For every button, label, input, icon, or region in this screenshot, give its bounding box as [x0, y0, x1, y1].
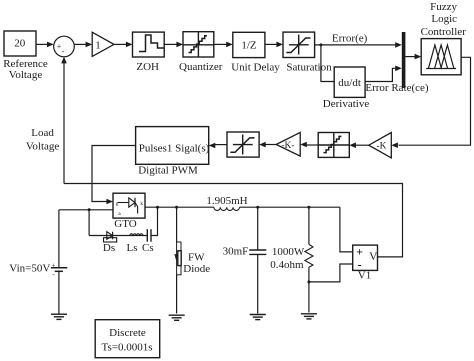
svg-text:0.4ohm: 0.4ohm [270, 259, 304, 271]
svg-text:Voltage: Voltage [9, 69, 43, 81]
svg-text:-: - [62, 47, 65, 56]
svg-text:Vin=50V: Vin=50V [9, 263, 50, 275]
svg-text:Quantizer: Quantizer [179, 61, 223, 73]
svg-text:+: + [356, 245, 363, 259]
svg-text:FW: FW [188, 252, 205, 264]
svg-text:Cs: Cs [142, 242, 154, 254]
svg-text:+: + [51, 262, 55, 270]
svg-text:1/Z: 1/Z [241, 40, 257, 52]
svg-text:Controller: Controller [421, 26, 467, 38]
svg-text:g: g [116, 201, 119, 207]
svg-text:Load: Load [31, 127, 54, 139]
svg-text:Saturation: Saturation [286, 62, 332, 74]
svg-text:k: k [140, 201, 143, 207]
svg-text:Unit Delay: Unit Delay [231, 62, 280, 74]
svg-text:Fuzzy: Fuzzy [430, 1, 457, 13]
svg-text:-: - [358, 258, 362, 272]
svg-text:30mF: 30mF [223, 246, 249, 258]
svg-text:Derivative: Derivative [323, 98, 370, 110]
svg-text:Pulses1 Sigal(s): Pulses1 Sigal(s) [139, 143, 210, 155]
svg-text:GTO: GTO [114, 218, 136, 230]
svg-text:Ds: Ds [103, 242, 115, 254]
svg-text:ZOH: ZOH [136, 61, 159, 73]
svg-text:1000W: 1000W [272, 246, 305, 258]
svg-text:Error(e): Error(e) [332, 33, 368, 45]
svg-text:Voltage: Voltage [26, 141, 60, 153]
svg-text:Discrete: Discrete [109, 327, 146, 339]
svg-text:Logic: Logic [431, 13, 457, 25]
svg-text:-K: -K [376, 142, 386, 152]
svg-text:1.905mH: 1.905mH [206, 195, 247, 207]
svg-text:du/dt: du/dt [338, 77, 361, 89]
svg-text:Ts=0.0001s: Ts=0.0001s [102, 342, 153, 354]
svg-text:Digital PWM: Digital PWM [138, 165, 198, 177]
svg-text:Diode: Diode [183, 263, 210, 275]
svg-text:V: V [369, 251, 378, 263]
svg-text:-K-: -K- [281, 141, 294, 151]
svg-text:Ls: Ls [127, 242, 138, 254]
svg-text:20: 20 [14, 37, 26, 49]
svg-text:1: 1 [95, 40, 101, 52]
svg-text:Error Rate(ce): Error Rate(ce) [365, 82, 429, 94]
